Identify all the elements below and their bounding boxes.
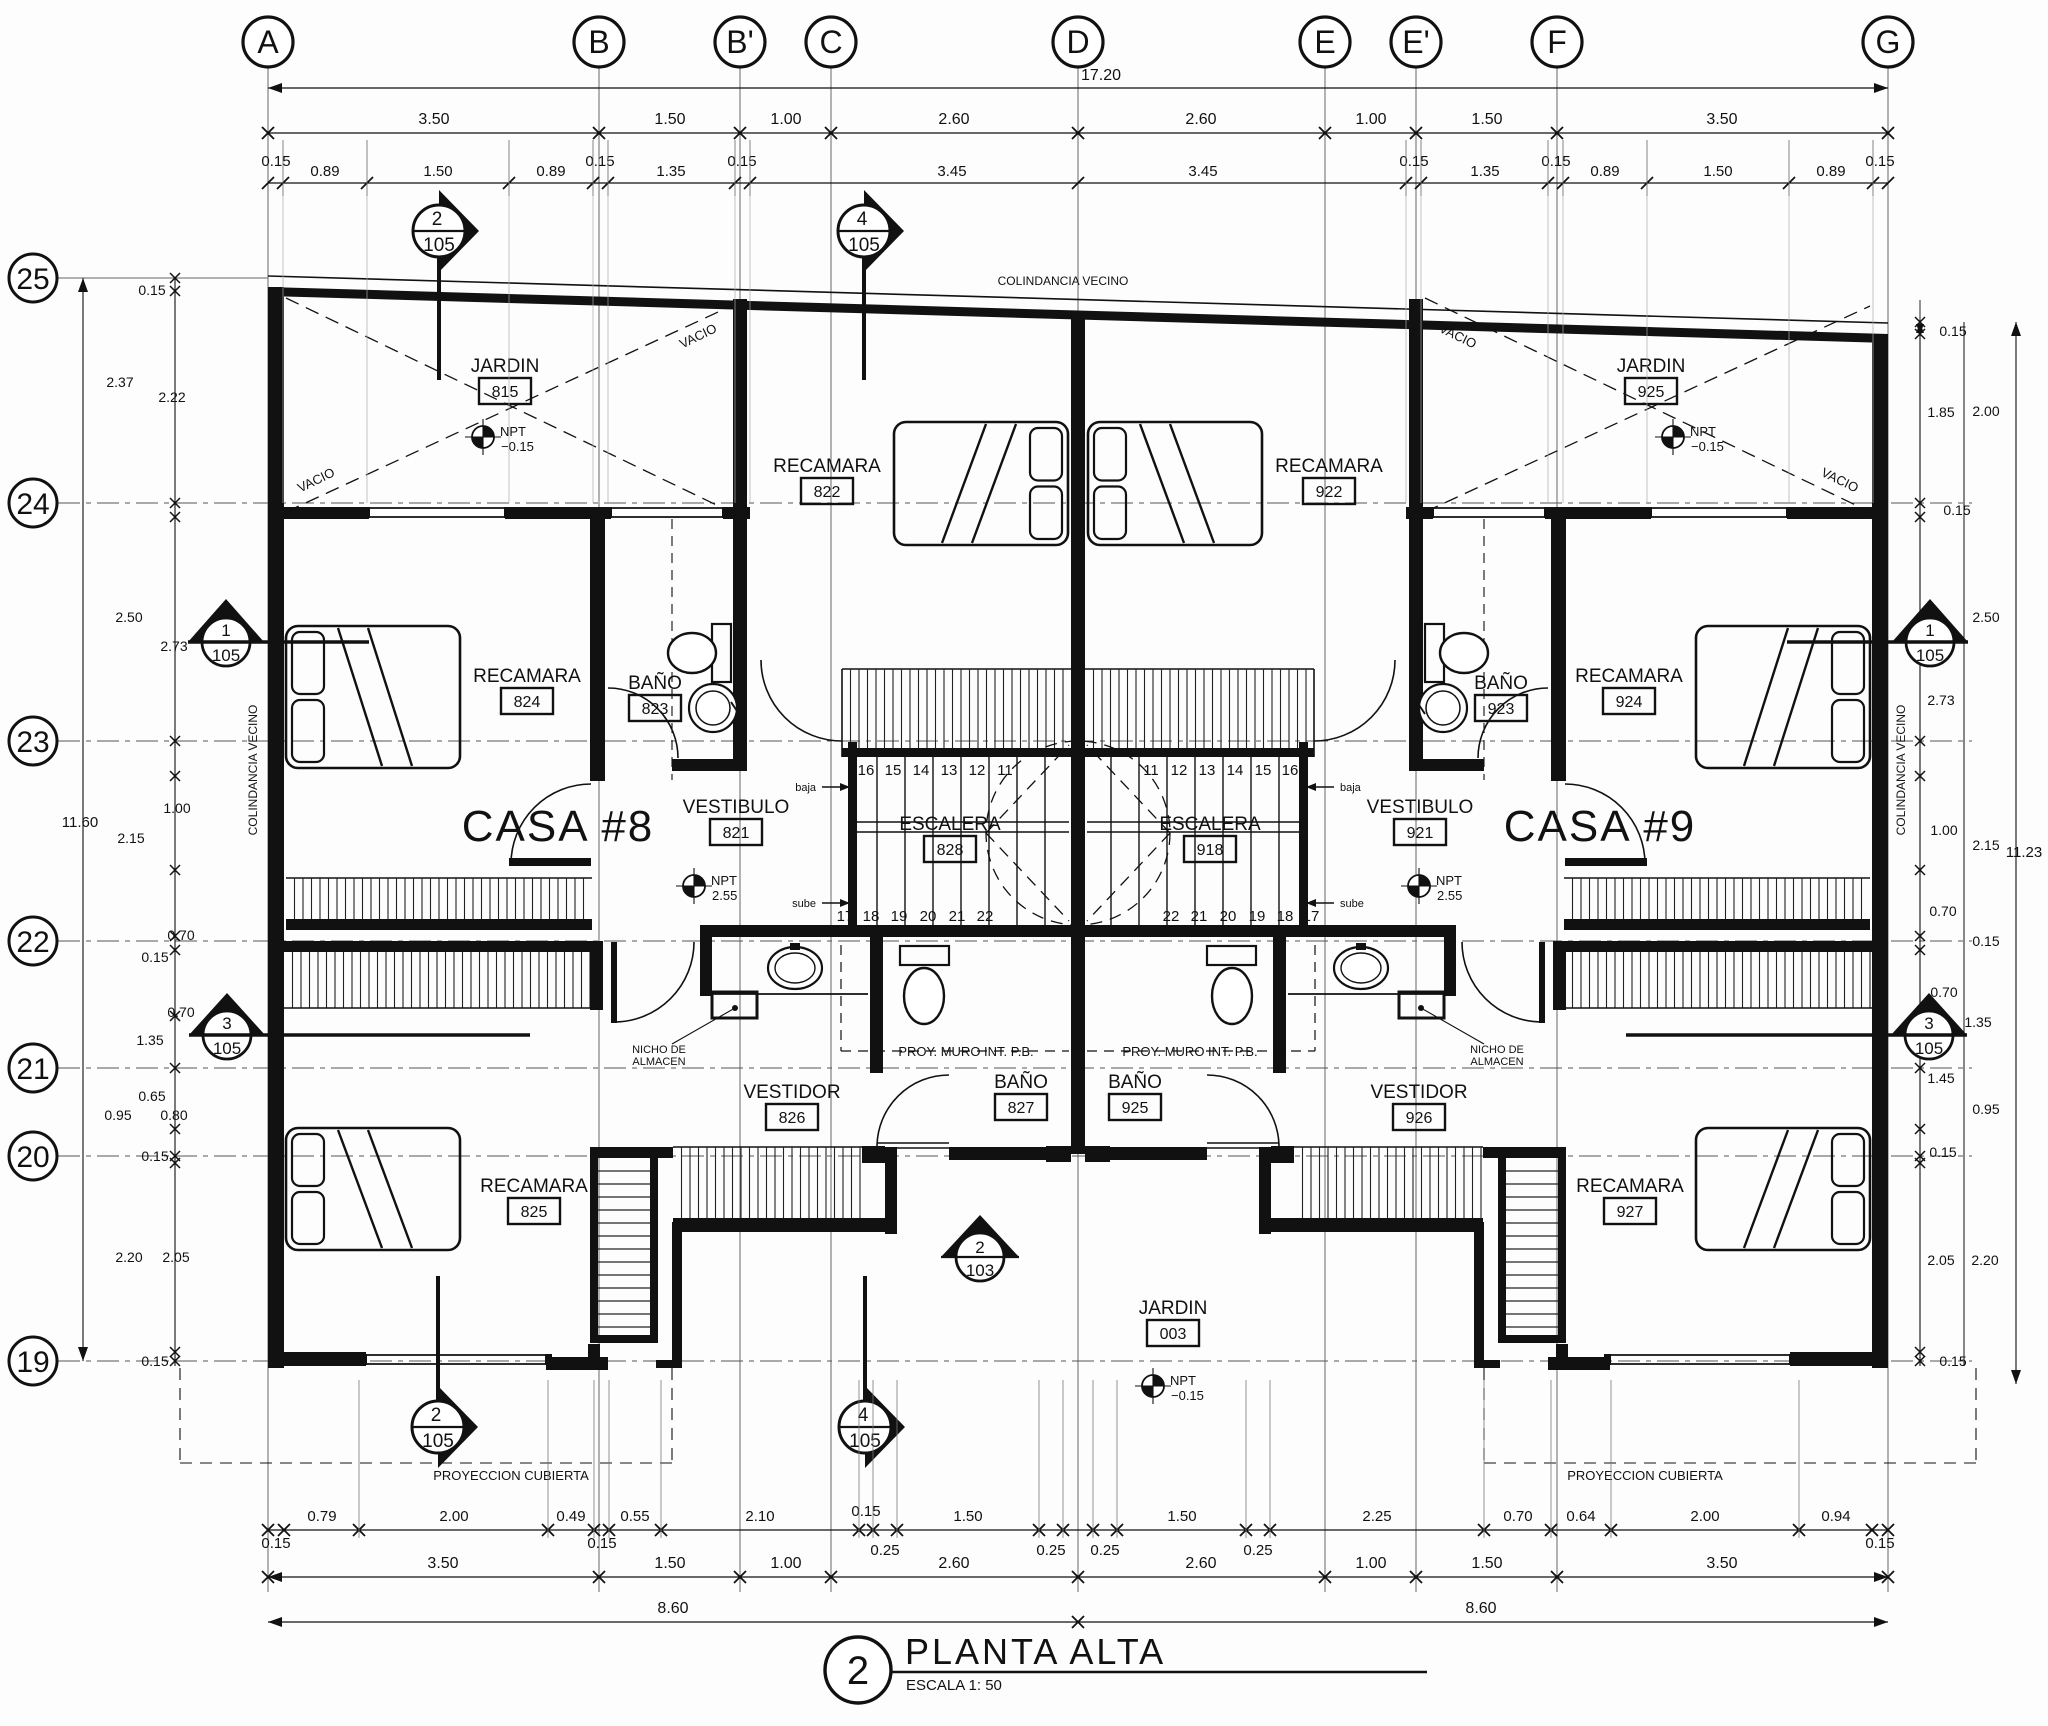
svg-text:2.05: 2.05 xyxy=(1927,1252,1954,1268)
colindancia vecino boundary line xyxy=(268,276,1888,323)
bed recamara 922 xyxy=(1088,422,1262,545)
bed recamara 822 xyxy=(894,422,1068,545)
svg-text:0.89: 0.89 xyxy=(310,163,339,180)
grid row line 25 xyxy=(58,277,268,279)
bath 925 east wall lower xyxy=(1259,1147,1271,1234)
svg-text:0.15: 0.15 xyxy=(1541,153,1570,170)
jardin 925 npt xyxy=(1662,426,1684,448)
bath 827 south wall xyxy=(949,1147,1046,1160)
bottom wall 927 seg1 xyxy=(1790,1352,1888,1366)
svg-text:3.50: 3.50 xyxy=(427,1555,458,1572)
bottom window 825 xyxy=(366,1354,546,1356)
svg-text:822: 822 xyxy=(814,484,841,501)
svg-text:827: 827 xyxy=(1008,1100,1035,1117)
stair lower left box xyxy=(590,1158,598,1343)
section marker 4/105 top xyxy=(864,190,904,272)
svg-text:11.60: 11.60 xyxy=(62,814,98,831)
proyeccion cubierta dashed left xyxy=(180,1462,672,1464)
grid bubble B&#39; xyxy=(715,17,765,67)
wall E prime upper xyxy=(1409,299,1423,519)
svg-text:VESTIBULO: VESTIBULO xyxy=(1367,797,1474,818)
svg-text:ESCALA 1: 50: ESCALA 1: 50 xyxy=(906,1677,1002,1694)
svg-text:0.79: 0.79 xyxy=(307,1508,336,1525)
party wall D xyxy=(1071,311,1085,1154)
svg-text:0.25: 0.25 xyxy=(870,1542,899,1559)
wall B prime lower xyxy=(733,507,747,771)
grid line B&#39; xyxy=(739,67,741,1592)
stair walking line dashed circle xyxy=(986,741,1170,925)
svg-text:3.50: 3.50 xyxy=(1706,1555,1737,1572)
svg-text:11.23: 11.23 xyxy=(2006,844,2042,861)
svg-text:2.73: 2.73 xyxy=(160,638,187,654)
svg-text:103: 103 xyxy=(966,1261,994,1280)
svg-text:2.73: 2.73 xyxy=(1927,692,1954,708)
grid line D xyxy=(1077,67,1079,1592)
svg-text:1.50: 1.50 xyxy=(654,1555,685,1572)
svg-text:PROY. MURO INT. P.B.: PROY. MURO INT. P.B. xyxy=(898,1044,1033,1059)
svg-text:0.15: 0.15 xyxy=(1943,502,1970,518)
svg-text:12: 12 xyxy=(969,762,986,779)
right dim lines inner xyxy=(1919,322,1921,1366)
door arc bath 823 xyxy=(608,688,678,758)
stair 828 treads xyxy=(876,757,878,925)
svg-text:F: F xyxy=(1547,24,1567,60)
svg-text:927: 927 xyxy=(1617,1204,1644,1221)
svg-text:2.60: 2.60 xyxy=(1185,1555,1216,1572)
svg-text:3.45: 3.45 xyxy=(1188,163,1217,180)
svg-text:925: 925 xyxy=(1638,384,1665,401)
svg-text:NPT: NPT xyxy=(1436,873,1462,888)
bottom dim row majors xyxy=(268,1576,1888,1578)
svg-text:0.89: 0.89 xyxy=(1590,163,1619,180)
svg-text:2.55: 2.55 xyxy=(712,888,737,903)
party wall D end caps xyxy=(1046,1146,1071,1162)
section marker 2/103 bottom center xyxy=(941,1215,1019,1257)
sink oval right xyxy=(1334,947,1388,989)
svg-text:1.00: 1.00 xyxy=(770,111,801,128)
grid bubble 24 xyxy=(9,479,57,527)
corridor hatch left xyxy=(673,1146,862,1148)
svg-text:0.15: 0.15 xyxy=(1939,1353,1966,1369)
svg-text:3: 3 xyxy=(222,1014,231,1033)
svg-text:2.10: 2.10 xyxy=(745,1508,774,1525)
vestidor door left xyxy=(611,942,617,1023)
svg-text:22: 22 xyxy=(977,908,994,925)
svg-text:1.35: 1.35 xyxy=(656,163,685,180)
svg-text:0.15: 0.15 xyxy=(851,1503,880,1520)
nicho almacen right xyxy=(1399,992,1444,1018)
svg-text:13: 13 xyxy=(1199,762,1216,779)
wall bath823 south xyxy=(672,759,747,771)
svg-text:RECAMARA: RECAMARA xyxy=(773,456,881,477)
svg-text:baja: baja xyxy=(795,782,817,794)
jardin 925 dashed X xyxy=(1425,298,1870,512)
grid line B xyxy=(598,67,600,1592)
proy muro dashed right xyxy=(1314,945,1316,1051)
svg-text:CASA #9: CASA #9 xyxy=(1504,802,1697,851)
grid bubble D xyxy=(1053,17,1103,67)
svg-text:BAÑO: BAÑO xyxy=(1108,1071,1162,1093)
svg-text:COLINDANCIA VECINO: COLINDANCIA VECINO xyxy=(246,705,260,836)
svg-text:NPT: NPT xyxy=(1170,1373,1196,1388)
grid bubble A xyxy=(243,17,293,67)
svg-text:2.60: 2.60 xyxy=(938,111,969,128)
grid row line 21 xyxy=(58,1067,1972,1069)
bath 925 east wall xyxy=(1273,937,1286,1073)
wall jardin925-south seg1 xyxy=(1787,507,1888,519)
svg-text:0.70: 0.70 xyxy=(1503,1508,1532,1525)
svg-text:921: 921 xyxy=(1407,825,1434,842)
svg-text:3.50: 3.50 xyxy=(1706,111,1737,128)
svg-text:15: 15 xyxy=(1255,762,1272,779)
stair 828 left wall xyxy=(848,742,857,930)
svg-text:21: 21 xyxy=(949,908,966,925)
top exterior wall xyxy=(268,287,1888,343)
grid line G xyxy=(1887,67,1889,1592)
svg-text:VESTIDOR: VESTIDOR xyxy=(1370,1082,1467,1103)
section marker 2/105 bottom xyxy=(438,1386,478,1468)
svg-text:B: B xyxy=(588,24,609,60)
svg-text:105: 105 xyxy=(1916,646,1944,665)
svg-text:1.50: 1.50 xyxy=(1703,163,1732,180)
dimension 17.20 overall xyxy=(268,87,1888,89)
jardin 815 dashed X xyxy=(286,298,731,512)
svg-text:16: 16 xyxy=(858,762,875,779)
svg-text:0.95: 0.95 xyxy=(1972,1101,1999,1117)
stair walking dashed diagonals right xyxy=(1087,745,1170,833)
bath 925 south wall xyxy=(1110,1147,1207,1160)
toilet 827 xyxy=(900,946,949,965)
stair 918 treads xyxy=(1278,757,1280,925)
svg-text:BAÑO: BAÑO xyxy=(994,1071,1048,1093)
grid line E&#39; xyxy=(1415,67,1417,1592)
grid bubble G xyxy=(1863,17,1913,67)
svg-text:4: 4 xyxy=(857,209,868,230)
svg-text:C: C xyxy=(819,24,842,60)
wall E prime lower xyxy=(1409,507,1423,771)
svg-text:2.55: 2.55 xyxy=(1437,888,1462,903)
sink 923 xyxy=(1419,684,1467,732)
svg-text:1.35: 1.35 xyxy=(1964,1014,1991,1030)
svg-text:NPT: NPT xyxy=(500,424,526,439)
svg-text:NICHO DE: NICHO DE xyxy=(1470,1044,1524,1056)
svg-text:1.85: 1.85 xyxy=(1927,404,1954,420)
svg-text:105: 105 xyxy=(213,1039,241,1058)
svg-text:19: 19 xyxy=(891,908,908,925)
svg-text:NICHO DE: NICHO DE xyxy=(632,1044,686,1056)
0.15 arrows top right xyxy=(1916,323,1924,333)
grid line C xyxy=(830,67,832,1592)
svg-text:0.15: 0.15 xyxy=(261,1535,290,1552)
wall under stairs right xyxy=(1085,925,1456,937)
sink counter left xyxy=(712,993,868,995)
svg-text:1.35: 1.35 xyxy=(136,1032,163,1048)
svg-text:ALMACEN: ALMACEN xyxy=(1470,1056,1523,1068)
svg-text:0.64: 0.64 xyxy=(1566,1508,1595,1525)
svg-text:VESTIDOR: VESTIDOR xyxy=(743,1082,840,1103)
closet band vestibulo left xyxy=(842,668,1071,670)
svg-text:19: 19 xyxy=(16,1346,49,1379)
svg-text:925: 925 xyxy=(1122,1100,1149,1117)
svg-text:20: 20 xyxy=(16,1141,49,1174)
svg-text:13: 13 xyxy=(941,762,958,779)
svg-text:21: 21 xyxy=(16,1053,49,1086)
svg-text:0.49: 0.49 xyxy=(556,1508,585,1525)
left dim line inner xyxy=(174,278,176,1366)
svg-text:105: 105 xyxy=(422,1431,454,1452)
svg-text:ESCALERA: ESCALERA xyxy=(1159,814,1261,835)
wall jardin925-south seg3 xyxy=(1406,507,1433,519)
svg-text:0.15: 0.15 xyxy=(138,282,165,298)
sink counter right xyxy=(1288,993,1444,995)
svg-text:0.25: 0.25 xyxy=(1090,1542,1119,1559)
svg-text:1.00: 1.00 xyxy=(1930,822,1957,838)
svg-text:2.37: 2.37 xyxy=(106,374,133,390)
grid bubble 21 xyxy=(9,1044,57,1092)
svg-text:1.50: 1.50 xyxy=(1471,111,1502,128)
svg-text:1.00: 1.00 xyxy=(163,800,190,816)
svg-text:PROYECCION CUBIERTA: PROYECCION CUBIERTA xyxy=(1567,1468,1723,1483)
closet band 924 upper xyxy=(1564,877,1870,879)
svg-text:0.89: 0.89 xyxy=(536,163,565,180)
svg-text:2.60: 2.60 xyxy=(1185,111,1216,128)
bath 827 west wall lower xyxy=(885,1147,897,1234)
proy muro dashed vertical bath 823 xyxy=(671,519,673,780)
svg-text:1.00: 1.00 xyxy=(1355,111,1386,128)
svg-text:2.15: 2.15 xyxy=(117,830,144,846)
grid bubble F xyxy=(1532,17,1582,67)
nicho leader right xyxy=(1421,1008,1484,1044)
svg-text:105: 105 xyxy=(423,235,455,256)
svg-text:2.00: 2.00 xyxy=(439,1508,468,1525)
svg-text:20: 20 xyxy=(920,908,937,925)
grid line A xyxy=(267,67,269,1592)
corridor end block right xyxy=(1271,1146,1294,1163)
wall jardin925-south seg2 xyxy=(1545,507,1651,519)
svg-text:0.15: 0.15 xyxy=(587,1535,616,1552)
svg-text:825: 825 xyxy=(521,1204,548,1221)
svg-text:2.05: 2.05 xyxy=(162,1249,189,1265)
svg-text:1.45: 1.45 xyxy=(1927,1070,1954,1086)
stair lower left wall top xyxy=(590,1147,673,1158)
sink room right wall xyxy=(1444,937,1456,996)
svg-text:22: 22 xyxy=(1163,908,1180,925)
jardin 003 npt xyxy=(1142,1375,1164,1397)
section marker 3/105 left xyxy=(189,993,265,1035)
svg-text:0.70: 0.70 xyxy=(167,927,194,943)
svg-text:1.50: 1.50 xyxy=(1471,1555,1502,1572)
grid row line 23 xyxy=(58,740,1972,742)
svg-text:0.89: 0.89 xyxy=(1816,163,1845,180)
svg-text:1.50: 1.50 xyxy=(423,163,452,180)
left exterior wall xyxy=(268,287,284,1368)
nicho almacen left xyxy=(712,992,757,1018)
svg-text:COLINDANCIA VECINO: COLINDANCIA VECINO xyxy=(1894,705,1908,836)
door arc bath 923 xyxy=(1478,688,1548,758)
svg-text:1: 1 xyxy=(221,621,230,640)
svg-text:PROYECCION CUBIERTA: PROYECCION CUBIERTA xyxy=(433,1468,589,1483)
sink oval left xyxy=(768,947,822,989)
svg-text:105: 105 xyxy=(1915,1039,1943,1058)
bath 925 door xyxy=(1207,1142,1279,1144)
dimension row minors xyxy=(268,182,1888,184)
door recamara 824 xyxy=(509,858,591,866)
svg-text:821: 821 xyxy=(723,825,750,842)
svg-text:12: 12 xyxy=(1171,762,1188,779)
bottom dim 8.60 row xyxy=(268,1621,1888,1623)
svg-text:19: 19 xyxy=(1249,908,1266,925)
svg-text:105: 105 xyxy=(848,235,880,256)
svg-text:sube: sube xyxy=(792,898,816,910)
wall jardin-south seg3 xyxy=(723,507,750,519)
grid bubble 20 xyxy=(9,1132,57,1180)
window bano-north xyxy=(611,507,723,509)
bed recamara 824 xyxy=(286,626,460,768)
wall E bedroom/bath xyxy=(1551,513,1566,781)
wall under stairs left xyxy=(700,925,1071,937)
stair lower right box xyxy=(1483,1147,1566,1158)
svg-text:16: 16 xyxy=(1282,762,1299,779)
grid bubble 22 xyxy=(9,917,57,965)
toilet 925 xyxy=(1207,946,1256,965)
svg-text:2.20: 2.20 xyxy=(115,1249,142,1265)
svg-text:2.22: 2.22 xyxy=(158,389,185,405)
bath 827 west wall xyxy=(870,937,883,1073)
svg-text:0.15: 0.15 xyxy=(585,153,614,170)
svg-text:B': B' xyxy=(726,24,753,60)
svg-text:0.55: 0.55 xyxy=(620,1508,649,1525)
svg-text:14: 14 xyxy=(913,762,930,779)
toilet 923 xyxy=(1425,624,1444,682)
bottom wall 825 seg2 xyxy=(546,1357,608,1370)
svg-text:0.15: 0.15 xyxy=(141,1148,168,1164)
svg-text:2.25: 2.25 xyxy=(1362,1508,1391,1525)
svg-text:−0.15: −0.15 xyxy=(1171,1388,1204,1403)
svg-text:A: A xyxy=(257,24,279,60)
window extension lines top left xyxy=(282,196,284,503)
dim extension ticks top xyxy=(282,140,284,196)
svg-text:2.60: 2.60 xyxy=(938,1555,969,1572)
svg-text:RECAMARA: RECAMARA xyxy=(480,1176,588,1197)
svg-text:924: 924 xyxy=(1616,694,1643,711)
grid row line 22 xyxy=(58,940,1972,942)
svg-text:2.15: 2.15 xyxy=(1972,837,1999,853)
svg-text:0.25: 0.25 xyxy=(1243,1542,1272,1559)
nicho leader left xyxy=(672,1008,735,1044)
svg-text:8.60: 8.60 xyxy=(1465,1600,1496,1617)
svg-text:25: 25 xyxy=(16,263,49,296)
door recamara 924 xyxy=(1565,858,1647,866)
svg-text:1.00: 1.00 xyxy=(1355,1555,1386,1572)
bottom window 927 xyxy=(1610,1354,1790,1356)
title bubble 2 xyxy=(825,1637,891,1703)
svg-text:2.50: 2.50 xyxy=(1972,609,1999,625)
window jardin925-south xyxy=(1651,507,1787,509)
vestibulo 821 npt xyxy=(683,875,705,897)
svg-text:0.70: 0.70 xyxy=(1929,903,1956,919)
svg-text:17: 17 xyxy=(1303,908,1320,925)
svg-text:105: 105 xyxy=(849,1431,881,1452)
window jardin-south xyxy=(369,507,505,509)
grid bubble 23 xyxy=(9,717,57,765)
svg-text:0.80: 0.80 xyxy=(160,1107,187,1123)
grid row line 19 xyxy=(58,1360,1972,1362)
svg-text:918: 918 xyxy=(1197,842,1224,859)
svg-text:CASA #8: CASA #8 xyxy=(462,802,655,851)
svg-text:−0.15: −0.15 xyxy=(501,439,534,454)
bath 827 door xyxy=(877,1142,949,1144)
svg-text:1.50: 1.50 xyxy=(654,111,685,128)
svg-text:G: G xyxy=(1876,24,1901,60)
bottom wall 825 seg1 xyxy=(268,1352,366,1366)
svg-text:RECAMARA: RECAMARA xyxy=(473,666,581,687)
section marker 1/105 left xyxy=(188,599,264,642)
svg-text:22: 22 xyxy=(16,926,49,959)
svg-text:828: 828 xyxy=(937,842,964,859)
svg-text:0.15: 0.15 xyxy=(261,153,290,170)
right exterior wall xyxy=(1872,334,1888,1368)
svg-text:sube: sube xyxy=(1340,898,1364,910)
svg-text:E': E' xyxy=(1402,24,1429,60)
svg-text:926: 926 xyxy=(1406,1110,1433,1127)
grid row line 20 xyxy=(58,1155,1972,1157)
svg-text:NPT: NPT xyxy=(711,873,737,888)
svg-text:0.15: 0.15 xyxy=(1865,1535,1894,1552)
svg-text:14: 14 xyxy=(1227,762,1244,779)
svg-text:17: 17 xyxy=(837,908,854,925)
svg-text:ALMACEN: ALMACEN xyxy=(632,1056,685,1068)
wall bath923 south xyxy=(1409,759,1484,771)
svg-text:0.65: 0.65 xyxy=(138,1088,165,1104)
svg-text:1.50: 1.50 xyxy=(1167,1508,1196,1525)
wall jardin-south seg1 xyxy=(268,507,369,519)
svg-text:2.50: 2.50 xyxy=(115,609,142,625)
svg-text:922: 922 xyxy=(1316,484,1343,501)
svg-text:BAÑO: BAÑO xyxy=(1474,672,1528,694)
svg-text:1: 1 xyxy=(1925,621,1934,640)
svg-text:−0.15: −0.15 xyxy=(1691,439,1724,454)
svg-text:2.20: 2.20 xyxy=(1971,1252,1998,1268)
svg-text:8.60: 8.60 xyxy=(657,1600,688,1617)
svg-text:0.15: 0.15 xyxy=(1399,153,1428,170)
grid bubble 25 xyxy=(9,254,57,302)
svg-text:20: 20 xyxy=(1220,908,1237,925)
sink 823 xyxy=(689,684,737,732)
wall west of garden left xyxy=(672,1222,682,1368)
svg-text:0.15: 0.15 xyxy=(1939,323,1966,339)
section marker 2/105 top xyxy=(439,190,479,272)
stair walking dashed diagonals left xyxy=(986,745,1069,833)
vestidor door right xyxy=(1539,942,1545,1023)
vestibulo 921 npt xyxy=(1408,875,1430,897)
svg-text:18: 18 xyxy=(1277,908,1294,925)
svg-text:RECAMARA: RECAMARA xyxy=(1275,456,1383,477)
proy muro dashed left xyxy=(840,945,842,1051)
svg-text:105: 105 xyxy=(212,646,240,665)
grid row line 24 xyxy=(58,502,1972,504)
grid bubble E xyxy=(1300,17,1350,67)
closet band 824 upper xyxy=(286,877,592,879)
proyeccion cubierta dashed right xyxy=(1484,1462,1976,1464)
svg-text:JARDIN: JARDIN xyxy=(1139,1298,1208,1319)
bed recamara 924 xyxy=(1696,626,1870,768)
svg-text:0.15: 0.15 xyxy=(1929,1144,1956,1160)
svg-text:NPT: NPT xyxy=(1690,424,1716,439)
svg-text:3: 3 xyxy=(1924,1014,1933,1033)
bed recamara 927 xyxy=(1696,1128,1870,1250)
dimension row majors xyxy=(268,132,1888,134)
svg-text:2.00: 2.00 xyxy=(1690,1508,1719,1525)
